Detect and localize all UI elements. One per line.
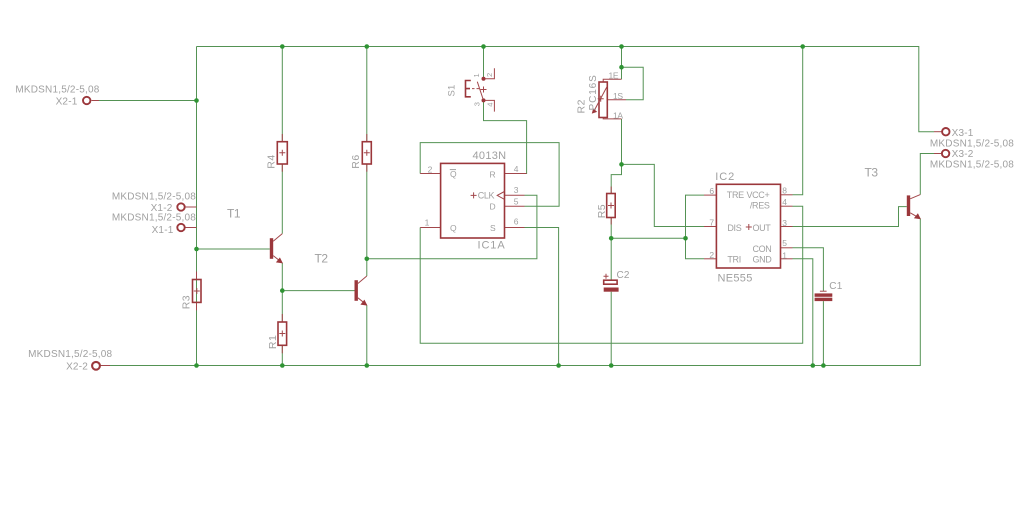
svg-text:R5: R5 xyxy=(596,204,608,218)
svg-text:X1-1: X1-1 xyxy=(152,225,174,236)
svg-text:R1: R1 xyxy=(267,335,279,349)
wire S1 top from rail xyxy=(483,47,485,71)
wire R5 bottom to C2 node xyxy=(610,218,612,281)
svg-text:R2: R2 xyxy=(575,99,587,113)
wire left vertical rail xyxy=(196,47,198,366)
junction gnd-C2 xyxy=(609,363,614,368)
wire 555 OUT to T3 base xyxy=(793,207,907,227)
wire C2 bottom to ground rail xyxy=(610,292,612,366)
wire R2 top from rail xyxy=(621,47,623,80)
svg-text:MKDSN1,5/2-5,08: MKDSN1,5/2-5,08 xyxy=(15,85,99,96)
wire DIS node to 555 pin7 xyxy=(622,164,705,226)
svg-text:1E: 1E xyxy=(609,71,619,81)
transistor T2 xyxy=(315,252,368,306)
svg-text:S: S xyxy=(490,223,496,233)
svg-text:C1: C1 xyxy=(829,281,842,292)
junction gnd-C1 xyxy=(821,363,826,368)
svg-text:Q: Q xyxy=(450,223,457,233)
wire T1 base xyxy=(197,248,270,250)
wire T1 emitter to R1 xyxy=(281,263,283,322)
connector pad X1-1 xyxy=(112,213,197,236)
svg-text:3: 3 xyxy=(514,185,519,195)
transistor T3 xyxy=(865,166,921,220)
svg-text:5: 5 xyxy=(514,196,519,206)
junction gnd-555 xyxy=(811,363,816,368)
svg-text:CON: CON xyxy=(753,244,772,254)
switch S1 xyxy=(447,68,495,111)
junction THR-TRI node xyxy=(683,236,688,241)
svg-text:IC2: IC2 xyxy=(715,171,735,183)
svg-text:6: 6 xyxy=(709,186,714,196)
wire T2 base xyxy=(282,290,354,292)
svg-text:T1: T1 xyxy=(227,207,241,221)
resistor R6 xyxy=(350,134,371,172)
svg-text:MKDSN1,5/2-5,08: MKDSN1,5/2-5,08 xyxy=(930,139,1014,150)
wire 555 GND to ground rail xyxy=(793,259,813,366)
svg-text:1: 1 xyxy=(425,218,430,228)
junction T2 collector CLK xyxy=(365,257,370,262)
wire Q to 555 /RES xyxy=(420,206,803,343)
wire C2 node to THR/TRI xyxy=(611,237,685,239)
svg-text:T3: T3 xyxy=(865,166,879,180)
svg-text:S1: S1 xyxy=(447,84,458,96)
svg-text:7: 7 xyxy=(709,218,714,228)
wire T2 emitter to ground rail xyxy=(366,306,368,366)
svg-text:2: 2 xyxy=(428,165,433,175)
svg-text:TRI: TRI xyxy=(727,255,740,265)
svg-text:R: R xyxy=(490,170,496,180)
svg-text:C2: C2 xyxy=(617,270,630,281)
wire top supply rail xyxy=(197,47,935,132)
svg-text:X2-1: X2-1 xyxy=(56,97,78,108)
svg-text:/RES: /RES xyxy=(750,201,770,211)
svg-text:2: 2 xyxy=(485,73,494,77)
svg-text:VCC+: VCC+ xyxy=(747,190,770,200)
resistor R3 xyxy=(181,272,202,311)
svg-text:1S: 1S xyxy=(613,91,623,101)
svg-text:1A: 1A xyxy=(613,111,623,121)
svg-text:R6: R6 xyxy=(350,154,362,168)
resistor R4 xyxy=(265,134,287,172)
junction rail-VCC xyxy=(800,44,805,49)
junction rail-S1 xyxy=(481,44,486,49)
junction DIS node xyxy=(619,162,624,167)
svg-text:TRE: TRE xyxy=(727,190,744,200)
wire Q-bar to D feedback xyxy=(420,143,559,207)
svg-text:R4: R4 xyxy=(265,154,277,168)
svg-text:4: 4 xyxy=(782,197,787,207)
op-amp U2 timer IC2 NE555 xyxy=(704,171,793,285)
svg-text:1: 1 xyxy=(782,251,787,261)
svg-text:CLK: CLK xyxy=(478,191,495,201)
svg-text:GND: GND xyxy=(753,255,773,265)
wire 555 CON to C1 xyxy=(793,248,824,292)
svg-text:R3: R3 xyxy=(181,295,193,309)
wire X2-1 to left rail xyxy=(99,100,197,102)
connector pad X3-2 xyxy=(930,149,1014,170)
svg-text:1: 1 xyxy=(472,74,481,78)
wire S1 to IC1A R pin xyxy=(484,108,527,174)
capacitor C1 xyxy=(815,281,843,301)
connector pad X2-2 xyxy=(28,349,112,372)
wire R4 bottom to T1 collector xyxy=(281,164,283,234)
wire R4 top xyxy=(281,47,283,142)
junction rail-R2 xyxy=(619,44,624,49)
transistor T1 xyxy=(227,207,283,264)
svg-text:8: 8 xyxy=(782,186,787,196)
svg-text:OUT: OUT xyxy=(753,223,772,233)
svg-text:D: D xyxy=(490,202,496,212)
svg-text:3: 3 xyxy=(472,102,481,106)
wire T3 collector to X3-2 xyxy=(920,154,934,195)
svg-text:4: 4 xyxy=(514,164,519,174)
potentiometer R2 PC16S xyxy=(575,71,626,121)
connector pad X3-1 xyxy=(930,128,1014,150)
junction T1 emitter T2 base xyxy=(280,288,285,293)
svg-text:4013N: 4013N xyxy=(473,150,507,162)
svg-text:X2-2: X2-2 xyxy=(66,361,88,372)
junction gnd-Spin xyxy=(556,363,561,368)
svg-text:5: 5 xyxy=(782,238,787,248)
resistor R1 xyxy=(267,314,287,353)
wire R2 wiper loop xyxy=(622,67,644,100)
svg-text:MKDSN1,5/2-5,08: MKDSN1,5/2-5,08 xyxy=(930,159,1014,170)
junction C2 node xyxy=(609,236,614,241)
svg-text:X3-1: X3-1 xyxy=(952,128,974,139)
connector pad X2-1 xyxy=(15,85,99,108)
junction gnd-T2 xyxy=(365,363,370,368)
wire C1 bottom to ground rail xyxy=(822,301,824,365)
svg-text:4: 4 xyxy=(485,103,494,107)
svg-text:2: 2 xyxy=(709,250,714,260)
svg-text:PC16S: PC16S xyxy=(588,74,599,110)
connector pad X1-2 xyxy=(112,192,197,214)
svg-text:6: 6 xyxy=(514,216,519,226)
wire T2 collector to IC1A CLK xyxy=(367,195,537,258)
svg-text:T2: T2 xyxy=(315,252,329,266)
svg-text:MKDSN1,5/2-5,08: MKDSN1,5/2-5,08 xyxy=(28,349,112,360)
wire R2 bottom to DIS node xyxy=(621,119,623,164)
junction R2 wiper tap xyxy=(619,65,624,70)
op-amp U1 flip-flop IC1A 4013N xyxy=(420,150,526,252)
junction rail-R6 xyxy=(365,44,370,49)
svg-text:IC1A: IC1A xyxy=(478,240,506,252)
wire R1 bottom to ground rail xyxy=(281,345,283,365)
svg-text:Q: Q xyxy=(450,169,457,179)
resistor R5 xyxy=(596,187,615,225)
svg-text:MKDSN1,5/2-5,08: MKDSN1,5/2-5,08 xyxy=(112,192,196,203)
wire 555 pin6-pin2 vertical xyxy=(686,195,705,259)
svg-text:DIS: DIS xyxy=(727,223,741,233)
wire bottom ground rail xyxy=(99,219,920,366)
svg-text:NE555: NE555 xyxy=(718,273,753,285)
wire DIS node to R5 top xyxy=(611,164,621,193)
svg-text:MKDSN1,5/2-5,08: MKDSN1,5/2-5,08 xyxy=(112,213,196,224)
junction rail-R4 xyxy=(280,44,285,49)
junction T1 base xyxy=(194,247,199,252)
svg-text:3: 3 xyxy=(782,218,787,228)
junction gnd-R1 xyxy=(280,363,285,368)
junction gnd-R3 xyxy=(194,363,199,368)
wire 555 VCC to rail xyxy=(793,47,803,195)
wire R6 top xyxy=(366,47,368,142)
wire R6 bottom to T2 collector xyxy=(366,164,368,276)
wire S pin to ground rail xyxy=(525,228,559,366)
capacitor C2 xyxy=(604,270,630,292)
junction X2-1 xyxy=(194,98,199,103)
